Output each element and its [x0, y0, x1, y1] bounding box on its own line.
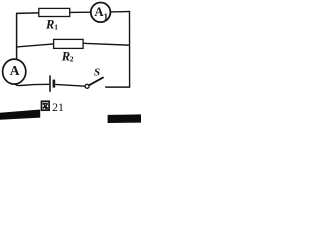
svg-text:21: 21	[52, 100, 64, 114]
svg-text:S: S	[94, 67, 100, 79]
svg-text:1: 1	[54, 23, 58, 32]
svg-text:2: 2	[70, 54, 74, 63]
svg-text:1: 1	[104, 12, 109, 22]
svg-text:R: R	[61, 49, 70, 63]
svg-text:R: R	[45, 18, 54, 32]
svg-text:A: A	[10, 63, 20, 78]
